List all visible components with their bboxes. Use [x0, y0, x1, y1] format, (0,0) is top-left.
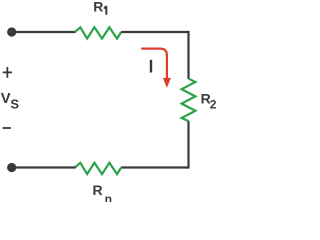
wire (top-right horizontal) [121, 31, 188, 33]
label − (source polarity minus) [3, 127, 11, 129]
wire (bottom-left horizontal) [12, 166, 76, 168]
resistor R1 (horizontal zigzag) [75, 27, 121, 38]
resistor R2 (vertical zigzag) [182, 79, 196, 122]
label + (source polarity plus) [3, 71, 12, 73]
svg-text:S: S [10, 96, 19, 111]
node A (top-left terminal dot) [7, 27, 16, 36]
wire (right vertical upper) [187, 31, 189, 79]
wire (bottom-right horizontal) [121, 166, 188, 168]
svg-text:R: R [93, 182, 103, 198]
arrowhead of current arrow [163, 78, 171, 88]
wire (top-left horizontal) [12, 31, 76, 33]
wire (right vertical lower) [187, 121, 189, 168]
label I (current) [150, 60, 152, 73]
svg-text:R: R [93, 0, 103, 14]
node B (bottom-left terminal dot) [7, 163, 16, 172]
svg-text:n: n [105, 192, 112, 202]
resistor Rn (horizontal zigzag) [75, 163, 121, 174]
svg-text:V: V [1, 91, 11, 107]
current arrow I (red) [141, 49, 167, 79]
svg-text:2: 2 [210, 97, 217, 111]
